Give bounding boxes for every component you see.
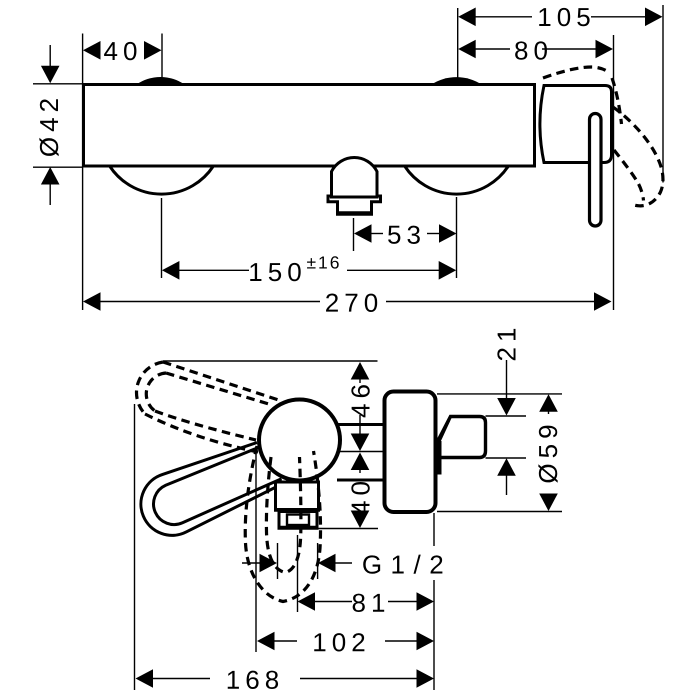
dimension 80 xyxy=(458,35,613,65)
right escutcheon top bump (filled) xyxy=(432,77,482,84)
mixer body bar xyxy=(84,85,535,167)
body axis line xyxy=(340,451,386,453)
dimension 21 xyxy=(492,323,522,495)
dimension 53 xyxy=(354,220,457,250)
svg-text:40: 40 xyxy=(104,36,143,66)
dashed handle rotated: base right edge xyxy=(612,78,622,124)
extension line y=393.9 (escutcheon top) xyxy=(437,393,562,395)
extension line x=663 (105 right) xyxy=(662,5,664,183)
dimension 105 xyxy=(458,2,662,32)
extension line y=361 (handle top) xyxy=(163,360,378,362)
extension line right circle center x=456.5 xyxy=(456,197,458,278)
dimension G1/2 xyxy=(242,549,452,579)
dimension 102 xyxy=(257,627,434,657)
dimension 40 xyxy=(83,36,162,66)
extension line y=167.2 (O42 bottom) xyxy=(33,166,83,168)
extension line y=528.5 (outlet bottom) xyxy=(318,528,378,530)
outlet spout (side view) xyxy=(274,482,320,528)
svg-text:150: 150 xyxy=(248,257,306,287)
nipple tab xyxy=(435,441,442,475)
solid loop handle ring xyxy=(141,443,288,536)
svg-text:±16: ±16 xyxy=(306,252,341,272)
svg-text:21: 21 xyxy=(492,323,522,362)
dimension O42 xyxy=(34,45,64,205)
svg-text:Ø42: Ø42 xyxy=(34,93,64,157)
dimension 150 +-16 xyxy=(162,252,456,287)
dimension O59 xyxy=(533,394,563,511)
extension line x=613.5 (80/270 right) xyxy=(613,35,615,310)
svg-text:53: 53 xyxy=(387,220,426,250)
dimension 46 xyxy=(346,362,376,451)
dashed handle rotated: lever ring inner xyxy=(614,150,644,201)
extension line x=457.7 (105/80 left) xyxy=(457,8,459,78)
dashed loop handle down position xyxy=(245,446,320,602)
extension line y=511.5 (escutcheon bottom) xyxy=(437,511,562,513)
svg-text:46: 46 xyxy=(346,379,376,418)
left escutcheon bottom arc xyxy=(110,166,214,194)
handle lever (top view) xyxy=(590,114,602,227)
dashed handle rotated: lever ring outer xyxy=(613,107,663,206)
svg-text:Ø59: Ø59 xyxy=(533,419,563,483)
svg-text:40: 40 xyxy=(346,476,376,515)
svg-text:105: 105 xyxy=(537,2,595,32)
body barrel bottom line xyxy=(337,479,386,482)
extension line x=277.5 (G1/2 left) xyxy=(277,543,279,579)
extension line x=162 (40 dim right) xyxy=(161,34,163,78)
wall escutcheon (side view) xyxy=(385,392,436,513)
extension line y=458 (nipple bottom) xyxy=(486,457,527,459)
nipple chamfer line xyxy=(437,420,450,447)
dimension 40 (side) xyxy=(346,453,376,529)
extension line left x=82.6 xyxy=(82,34,84,311)
dashed loop handle up position xyxy=(136,362,280,452)
extension line y=416 (nipple top) xyxy=(486,415,527,417)
extension line x=256 (102 left) xyxy=(255,454,257,652)
extension line x=434 (wall, right) xyxy=(433,513,435,546)
extension line y=83.8 (O42 top) xyxy=(33,83,83,85)
svg-text:80: 80 xyxy=(514,35,553,65)
svg-text:270: 270 xyxy=(325,288,383,318)
dimension 270 xyxy=(83,288,612,318)
handle knob circle xyxy=(259,400,340,481)
extension line x=317.6 (G1/2 right) xyxy=(317,543,319,579)
dimension 81 xyxy=(298,588,435,618)
handle base (top view) xyxy=(540,86,612,163)
dimension 168 xyxy=(136,665,435,695)
G1/2 connection nipple xyxy=(435,417,486,475)
svg-text:168: 168 xyxy=(226,665,284,695)
svg-text:G1/2: G1/2 xyxy=(362,549,452,579)
left escutcheon top bump (filled) xyxy=(137,77,185,85)
body barrel top line xyxy=(337,423,386,426)
svg-text:81: 81 xyxy=(352,588,391,618)
extension line x=134.5 (168 left) xyxy=(134,404,136,690)
outlet spout (front view) xyxy=(328,158,381,214)
extension line left circle center x=161.5 xyxy=(161,198,163,278)
right escutcheon bottom arc xyxy=(405,166,509,194)
extension line x=297.5 (outlet centerline) xyxy=(297,535,299,612)
dashed handle rotated: base top edge xyxy=(543,67,610,78)
extension line outlet center x=353.5 xyxy=(353,218,355,251)
svg-text:102: 102 xyxy=(312,627,370,657)
